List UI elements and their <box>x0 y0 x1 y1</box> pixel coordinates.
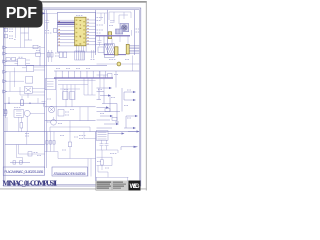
svg-text:PLACA MINIAC_01-8022S-10/06: PLACA MINIAC_01-8022S-10/06 <box>4 170 43 174</box>
resistor R2 <box>4 35 8 38</box>
hier block box <box>57 12 95 52</box>
divider vertical x46.3 <box>45 10 47 168</box>
wire caps <box>102 140 107 150</box>
divider vertical x95.5 top <box>95 10 97 55</box>
wire bl vertical <box>19 145 45 155</box>
capacitor C12 <box>98 36 102 46</box>
resistor R9 <box>105 109 110 112</box>
label mid parts <box>65 112 69 115</box>
wire right y75 <box>97 71 109 92</box>
cap drops left <box>46 132 55 149</box>
capacitor C7 <box>100 144 104 146</box>
ic U8 small <box>98 47 104 53</box>
wire down to titleblock <box>98 172 108 177</box>
connector arrow J6 <box>3 90 24 93</box>
net arrow y147 <box>121 146 138 150</box>
capacitor C14 <box>68 132 71 159</box>
net arrow B4 <box>124 127 136 129</box>
connector arrow J3 <box>3 60 18 63</box>
net arrow A4 <box>100 115 113 117</box>
border frame inner <box>5 10 139 185</box>
wire seg y91.5 <box>97 91 105 93</box>
pin numbers U1 right <box>87 19 89 44</box>
label box PLACA <box>3 167 45 175</box>
net arrow top right corner <box>128 130 140 132</box>
switch S1 <box>28 152 41 156</box>
connector P1 yellow <box>108 32 111 39</box>
jumper JP1 yellow circle <box>97 62 140 66</box>
ramp outline box <box>104 44 114 57</box>
resistor R3 <box>20 117 23 131</box>
ic U10 <box>26 77 33 84</box>
net arrow A3 <box>97 106 110 108</box>
ic U5 <box>96 131 108 141</box>
wire mid drops <box>66 99 88 120</box>
capacitor C1 <box>33 45 41 48</box>
capacitor C6 <box>42 102 46 107</box>
resistor R12 on net <box>21 96 24 106</box>
label right mesh <box>98 90 131 123</box>
label mid <box>47 90 74 124</box>
wire seg y84.5 <box>58 84 88 86</box>
wire lamp right <box>30 112 44 114</box>
capacitor C15 <box>13 161 16 164</box>
svg-text:WEG: WEG <box>130 184 140 190</box>
resistor R4 <box>6 58 10 61</box>
label above U1 <box>76 15 78 17</box>
resistor R6 vertical <box>47 50 49 62</box>
pin numbers U1 left <box>58 22 60 45</box>
resistor R10 <box>112 117 117 120</box>
label bottomright <box>97 154 116 169</box>
label R2 <box>9 36 13 39</box>
label bl <box>25 134 29 137</box>
net arrow B3 <box>126 115 138 117</box>
net arrow U5 out <box>108 132 125 134</box>
transformer T1 <box>14 110 24 118</box>
ic U3 <box>63 92 68 100</box>
label bus names <box>56 68 90 70</box>
wire mesh verticals <box>99 88 126 128</box>
bus ramp diagonals <box>105 44 117 54</box>
wire net y157 <box>97 157 113 165</box>
bus y54.6 <box>105 54 127 56</box>
label right mid <box>109 59 129 61</box>
lamp L1 <box>24 110 30 116</box>
svg-text:ATUALIZADO EM 10/2006: ATUALIZADO EM 10/2006 <box>54 172 86 176</box>
capacitor C5 <box>110 21 115 23</box>
wire seg y120 <box>97 119 111 121</box>
net arrow B1 <box>124 91 136 93</box>
net arrow B2 <box>124 99 136 101</box>
wire y138.6 right stub <box>84 132 96 139</box>
capacitor C3 <box>4 103 7 118</box>
wire above titleblock <box>88 159 91 177</box>
motor M1 <box>48 106 54 112</box>
wire K1 bottom <box>20 87 45 98</box>
wire drops from above <box>9 97 38 103</box>
ic U1 big yellow DIP <box>75 17 86 46</box>
bracket left of block <box>54 29 58 33</box>
box mid x53 <box>58 110 64 117</box>
transistor Q1 <box>51 117 57 125</box>
divider vertical x107 <box>106 10 108 55</box>
box right small <box>108 71 119 88</box>
wire chain x15.5 <box>14 28 16 40</box>
wire pair x92 <box>91 50 95 60</box>
divider vertical x44.5 <box>44 10 46 168</box>
wire seg y128 <box>97 127 113 129</box>
diode D1 <box>3 109 7 115</box>
net arrow into block <box>43 12 58 14</box>
logo WEG <box>129 181 141 191</box>
divider vertical x134 <box>134 10 136 55</box>
label C5 <box>109 25 111 27</box>
pdf badge <box>0 0 43 28</box>
net line y120.6 <box>45 120 96 122</box>
label R1 <box>9 29 13 32</box>
connector P3 yellow <box>126 44 139 54</box>
wire x132.5 drop <box>132 56 134 72</box>
wire below bus2 <box>112 30 132 44</box>
wire right verticals <box>84 78 96 95</box>
title block table <box>96 181 129 190</box>
ic U9 <box>45 79 56 90</box>
net line y158.5 <box>58 152 96 159</box>
border frame outer <box>3 8 140 186</box>
capacitor C8 <box>105 144 109 146</box>
net line y71 <box>54 70 140 72</box>
label net names1 <box>97 18 103 34</box>
resistor array RN2 <box>75 51 85 60</box>
net line y106.8 <box>45 106 96 108</box>
divider vertical x95 bottom <box>95 132 97 181</box>
wire seg y89 <box>60 88 80 90</box>
wire seg y40 <box>25 39 33 41</box>
capacitor C9 <box>45 13 49 29</box>
svg-text:MINIAC_01 - COMPUS II: MINIAC_01 - COMPUS II <box>3 180 58 188</box>
connector P2 yellow <box>115 47 118 55</box>
page top edge <box>0 1 147 3</box>
label box ATUALIZADO <box>52 167 88 176</box>
wire U1 left pins <box>57 30 74 46</box>
resistor R5 <box>12 58 16 61</box>
wire verticals topleft <box>21 28 29 48</box>
resistor R7 vertical <box>51 50 53 62</box>
net arrow A1 <box>97 87 113 89</box>
label T1 <box>14 107 16 109</box>
wire U7 left <box>10 68 26 92</box>
ic U4 <box>69 92 74 100</box>
capacitor C16 <box>20 161 23 164</box>
label bottom center <box>60 136 85 151</box>
capacitor C10 <box>59 52 62 58</box>
title block top line <box>96 177 129 181</box>
wire topright2 <box>103 36 105 55</box>
connector arrow J4 <box>3 70 27 73</box>
wire grid topright <box>109 12 131 24</box>
bus center y78 <box>54 77 113 79</box>
wire jog down <box>17 145 23 163</box>
wire net y165 <box>97 166 113 173</box>
ic U2 striped <box>116 29 123 34</box>
net line y66 full width <box>4 65 107 67</box>
wire ramp top <box>96 43 113 45</box>
net line y103 left <box>4 103 45 104</box>
connector arrow J5 <box>3 80 24 83</box>
wire mid3 <box>50 121 90 132</box>
wire vertical x56 <box>55 78 57 121</box>
net line y162.5 <box>10 162 30 164</box>
bus into U1 <box>57 23 74 25</box>
wire U1 right pins <box>86 20 96 45</box>
ic U7 <box>26 65 44 71</box>
wire seg y33 <box>21 32 29 34</box>
connector arrow J2 <box>3 52 45 55</box>
net arrow A2 <box>100 94 111 96</box>
bus topright y35.7 <box>96 35 130 37</box>
divider horizontal y131 <box>4 131 140 133</box>
net arrow A5 <box>104 123 119 125</box>
wire seg y111.5 <box>97 111 121 113</box>
wire topright1 <box>97 13 108 24</box>
bus companion lines <box>57 20 74 27</box>
connector arrow J1 <box>3 46 45 49</box>
wire seg y99.5 <box>97 99 102 101</box>
label U6 <box>19 56 21 58</box>
resistor R11 vertical <box>101 150 104 170</box>
relay K1 <box>24 87 44 94</box>
capacitor C11 <box>64 52 67 58</box>
wire y151.5 left stub <box>45 149 58 152</box>
wire U1 bottom pins <box>77 46 87 52</box>
wire cluster verticals center <box>63 85 75 101</box>
ic U6 <box>15 59 31 66</box>
resistor R1 <box>4 28 8 31</box>
wire left rail <box>7 116 27 144</box>
wire verticals to bus <box>56 71 106 78</box>
net line y144.5 <box>5 144 45 146</box>
label R6 R7 <box>55 53 59 56</box>
label C9 <box>45 31 51 34</box>
bus shadow band <box>57 33 74 35</box>
wire seg y80.5 <box>58 80 96 82</box>
mark right strip <box>136 29 140 32</box>
page right edge <box>145 1 147 191</box>
capacitor C13 <box>36 48 41 66</box>
buzzer LS1 <box>120 24 129 32</box>
page bottom edge <box>0 188 147 190</box>
wire net y150 <box>97 150 119 153</box>
svg-text:PDF: PDF <box>6 5 37 22</box>
wire seg y103.5 <box>102 103 117 105</box>
